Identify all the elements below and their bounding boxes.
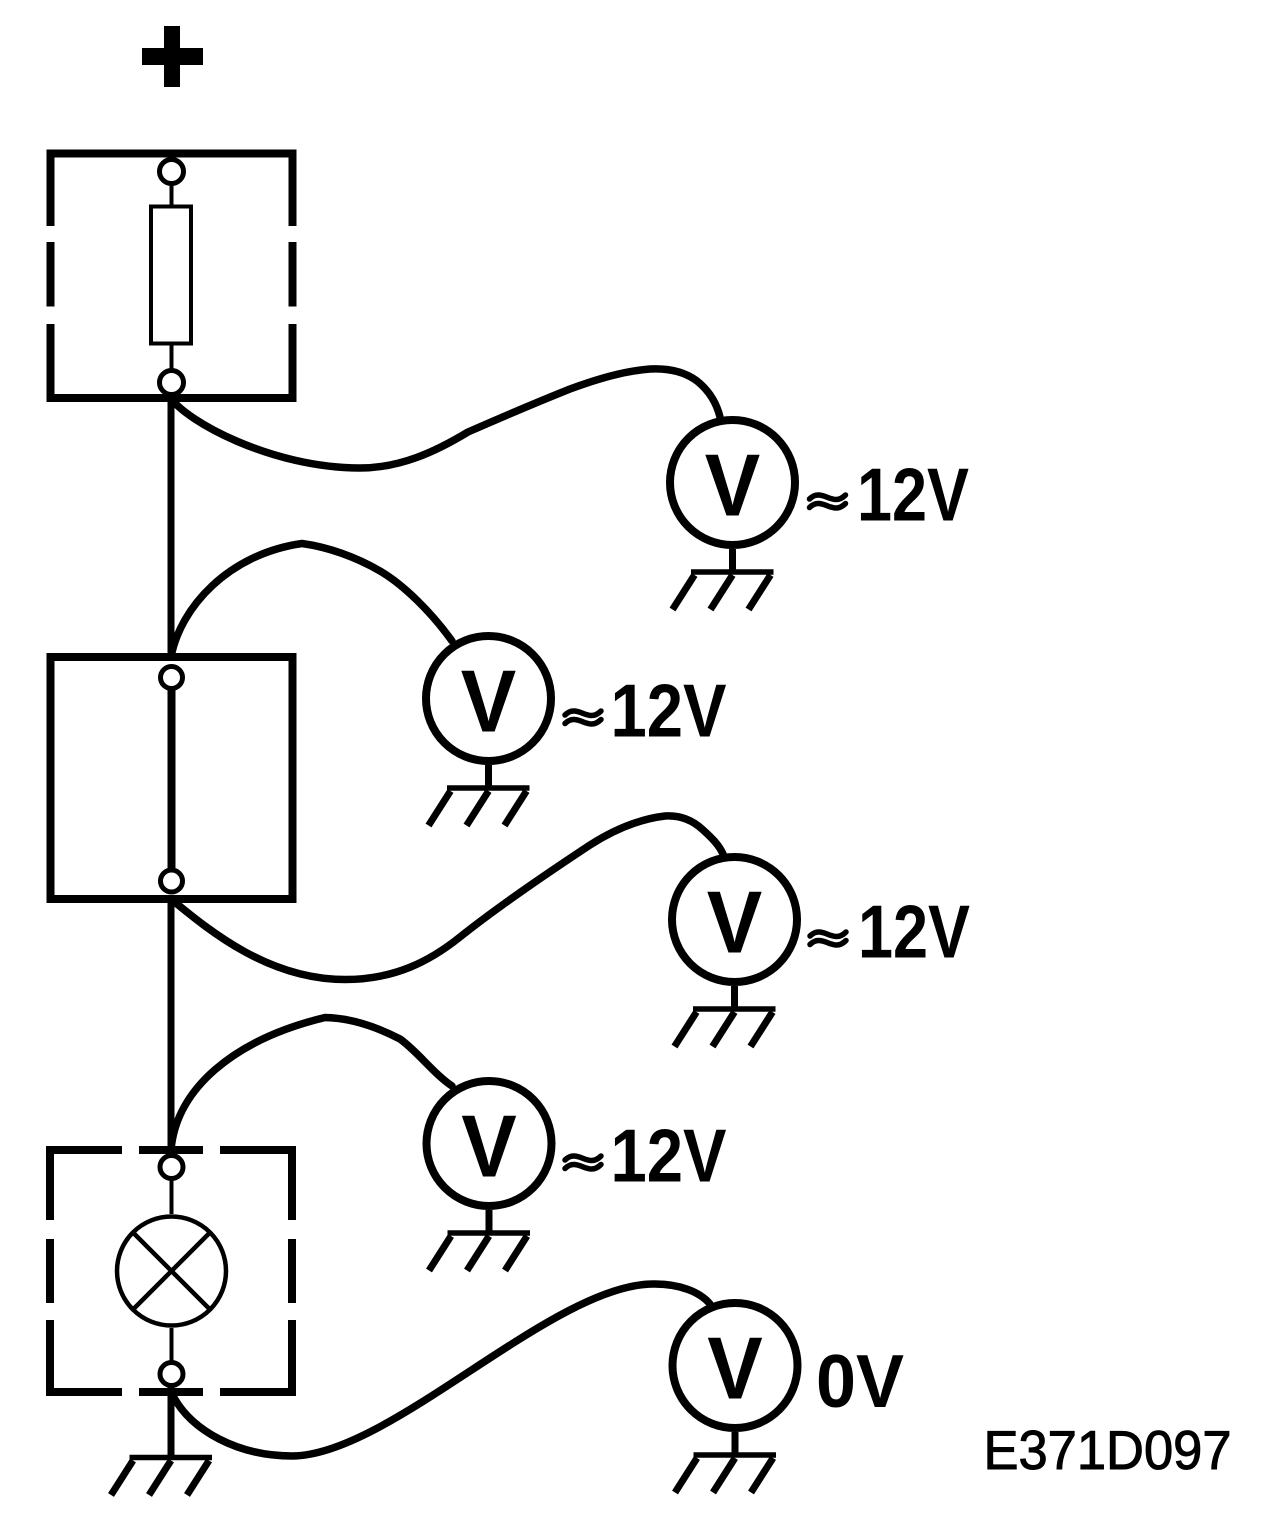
svg-text:12V: 12V <box>857 453 969 537</box>
svg-text:12V: 12V <box>611 1114 727 1198</box>
svg-text:E371D097: E371D097 <box>984 1419 1232 1481</box>
svg-text:12V: 12V <box>611 669 727 753</box>
svg-text:12V: 12V <box>858 890 970 974</box>
svg-text:0V: 0V <box>816 1339 904 1423</box>
